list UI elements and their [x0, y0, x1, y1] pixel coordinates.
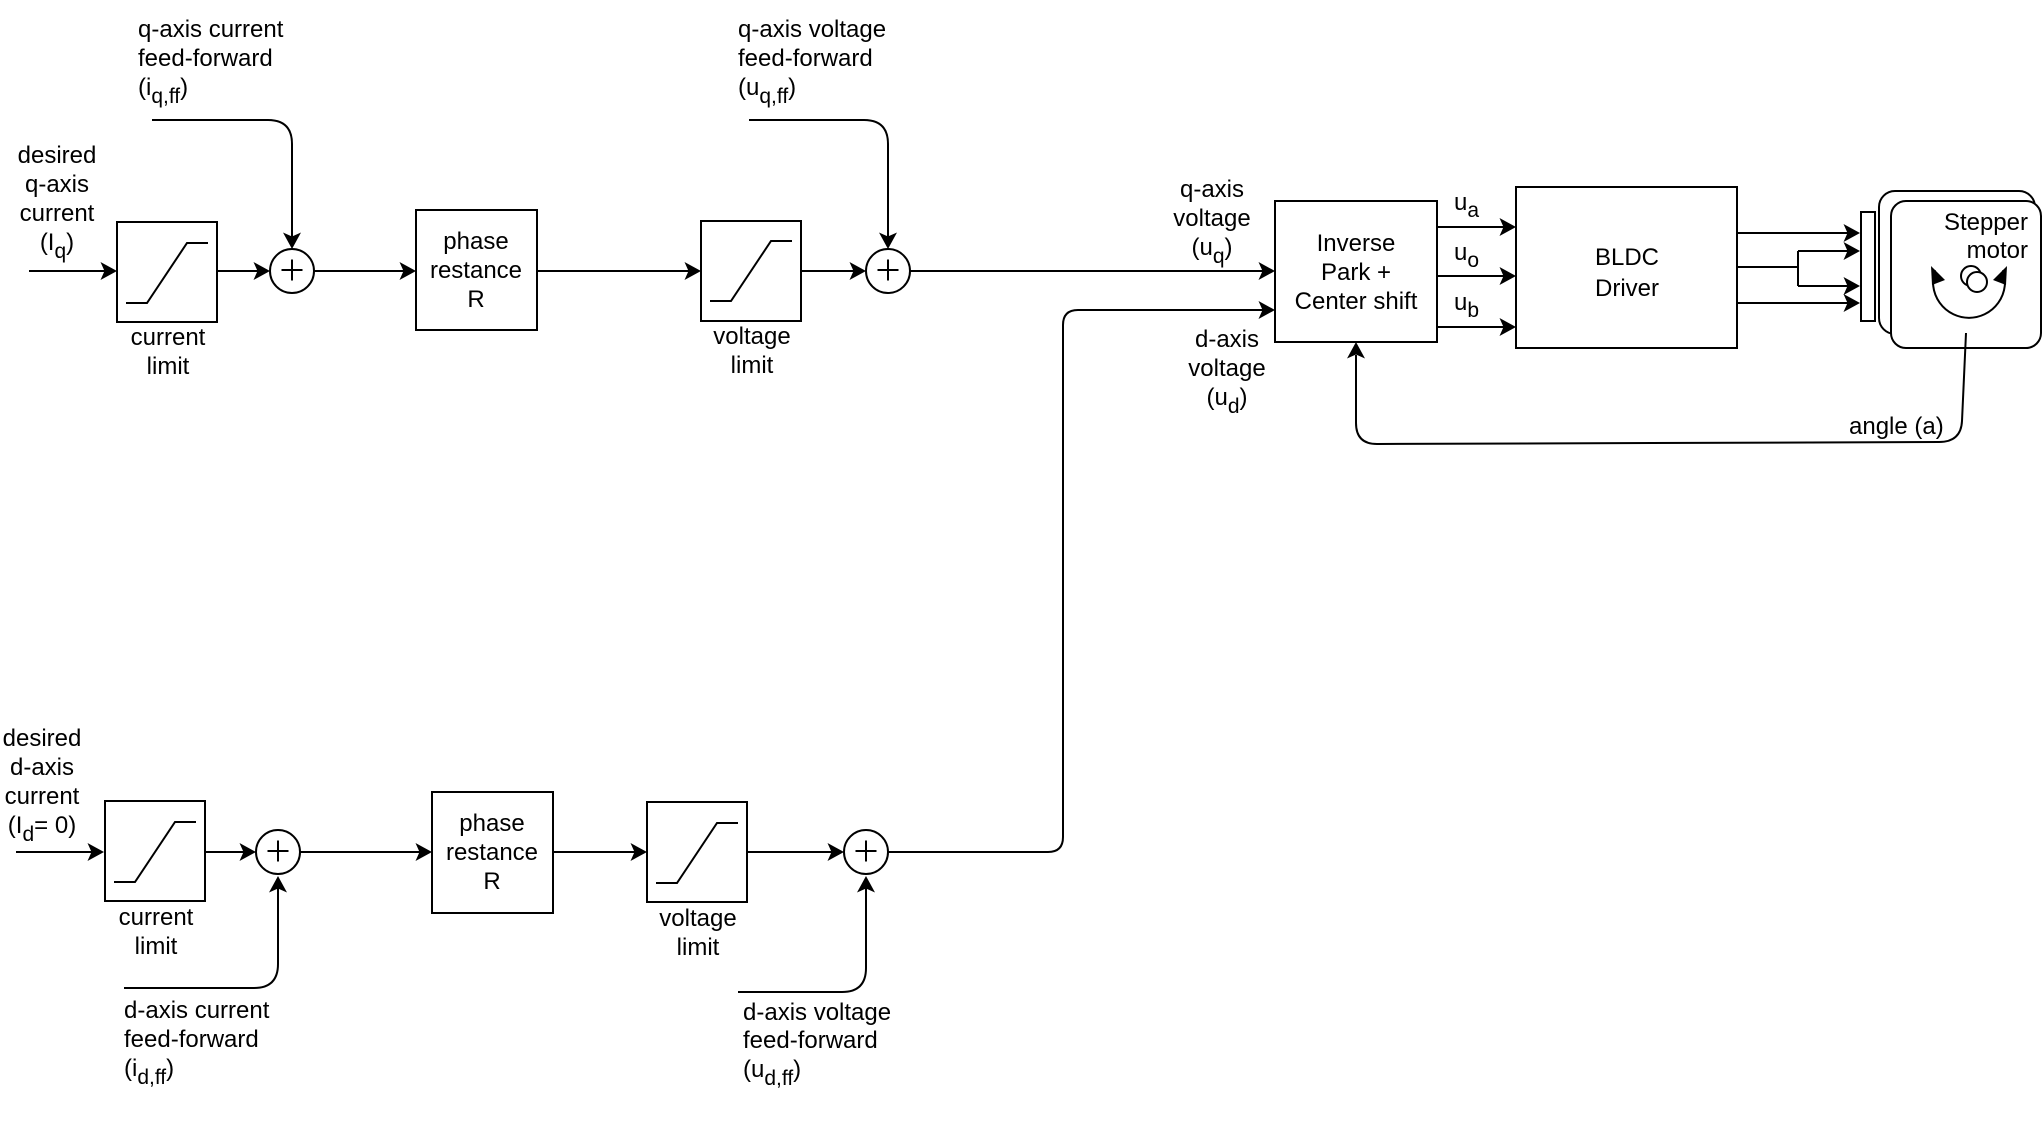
svg-text:current: current [20, 200, 95, 227]
node label: q-axis voltage feed-forward (uq,ff) [738, 16, 886, 108]
svg-text:current: current [5, 783, 80, 810]
svg-text:voltage: voltage [713, 323, 790, 350]
motor shaft front circle [1967, 272, 1987, 292]
motor mounting plate [1861, 212, 1875, 321]
wire: voltage limit to summer S4 (d) [747, 843, 844, 861]
wire: BLDC phase B to motor [1737, 294, 1860, 312]
node label: d-axis voltage (ud) [1188, 326, 1265, 418]
svg-text:voltage: voltage [1188, 355, 1265, 382]
svg-text:Inverse: Inverse [1317, 230, 1396, 257]
svg-text:Center shift: Center shift [1295, 288, 1418, 315]
wire: ua from inverse park to BLDC [1437, 189, 1516, 236]
svg-text:phase: phase [443, 228, 508, 255]
block: voltage limit (q) [701, 221, 801, 379]
wire: current limit to summer S3 (d) [205, 843, 256, 861]
wire: ud,ff feed-forward into S4 [738, 876, 875, 992]
svg-text:BLDC: BLDC [1595, 244, 1659, 271]
block: current limit (d) [105, 801, 205, 960]
wire: d input into current limit [16, 843, 104, 861]
svg-text:desired: desired [18, 142, 97, 169]
svg-text:feed-forward: feed-forward [138, 45, 273, 72]
block: BLDC Driver U2 [1516, 187, 1737, 348]
wire: angle (a) feedback from motor to inverse park [1347, 333, 1966, 444]
motor back body [1879, 191, 2035, 334]
svg-text:phase: phase [459, 810, 524, 837]
svg-text:feed-forward: feed-forward [743, 1027, 878, 1054]
svg-text:q-axis: q-axis [25, 171, 89, 198]
svg-text:limit: limit [147, 353, 190, 380]
wire: phase restance R to voltage limit (q) [537, 262, 701, 280]
svg-text:feed-forward: feed-forward [738, 45, 873, 72]
block: Inverse Park + Center shift U1 [1275, 201, 1437, 342]
node label: q-axis voltage (uq) [1173, 176, 1250, 268]
svg-text:d-axis voltage: d-axis voltage [743, 999, 891, 1026]
svg-text:q-axis voltage: q-axis voltage [738, 16, 886, 43]
wire: S1 to phase restance R (q) [314, 262, 416, 280]
wire: S4 up to inverse park d input (ud) [888, 301, 1275, 852]
svg-text:q-axis: q-axis [1180, 176, 1244, 203]
summer S2 (q voltage) [866, 249, 910, 293]
wire: current limit to summer S1 [217, 262, 270, 280]
block: phase restance R (d) [432, 792, 553, 913]
svg-text:current: current [131, 324, 206, 351]
summer S3 (d current) [256, 830, 300, 874]
block: phase restance R (q) [416, 210, 537, 330]
wire: uq,ff feed-forward into S2 [749, 120, 897, 249]
svg-text:R: R [483, 868, 500, 895]
svg-text:Driver: Driver [1595, 275, 1659, 302]
wire: uo from inverse park to BLDC [1437, 239, 1516, 285]
svg-text:q-axis current: q-axis current [138, 16, 284, 43]
node label: q-axis current feed-forward (iq,ff) [138, 16, 284, 108]
svg-text:Park +: Park + [1321, 259, 1391, 286]
wire: ub from inverse park to BLDC [1437, 289, 1516, 336]
block: voltage limit (d) [647, 802, 747, 961]
svg-text:restance: restance [446, 839, 538, 866]
svg-text:voltage: voltage [659, 905, 736, 932]
node label: d-axis voltage feed-forward (ud,ff) [743, 999, 891, 1090]
svg-text:d-axis: d-axis [1195, 326, 1259, 353]
summer S1 (q current) [270, 249, 314, 293]
wire: voltage limit to summer S2 (q) [801, 262, 866, 280]
wire: BLDC phase A to motor [1737, 224, 1860, 242]
wire: q input into current limit [29, 262, 117, 280]
wire: phase restance R to voltage limit (d) [553, 843, 647, 861]
svg-text:restance: restance [430, 257, 522, 284]
wire: S3 to phase restance R (d) [300, 843, 432, 861]
wire: iq,ff feed-forward into S1 [152, 120, 301, 249]
svg-text:motor: motor [1967, 237, 2028, 264]
svg-text:feed-forward: feed-forward [124, 1026, 259, 1053]
summer S4 (d voltage) [844, 830, 888, 874]
svg-text:current: current [119, 904, 194, 931]
wire: id,ff feed-forward into S3 [124, 876, 287, 988]
svg-text:voltage: voltage [1173, 205, 1250, 232]
svg-text:R: R [467, 286, 484, 313]
wire: BLDC phase mid split to motor [1737, 242, 1860, 295]
block: current limit (q) [117, 222, 217, 380]
svg-text:desired: desired [3, 725, 82, 752]
svg-text:limit: limit [731, 352, 774, 379]
node label: desired q-axis current (Iq) [18, 142, 97, 263]
svg-text:limit: limit [677, 934, 720, 961]
motor rotation arc arrow [1931, 266, 2007, 318]
svg-text:limit: limit [135, 933, 178, 960]
node label: desired d-axis current (Id = 0) [3, 725, 82, 846]
svg-text:angle (a): angle (a) [1849, 413, 1944, 440]
svg-text:d-axis current: d-axis current [124, 997, 270, 1024]
svg-text:Stepper: Stepper [1944, 209, 2028, 236]
motor M1: stepper motor front body [1891, 201, 2041, 348]
node label: d-axis current feed-forward (id,ff) [124, 997, 270, 1089]
svg-text:d-axis: d-axis [10, 754, 74, 781]
motor shaft back circle [1961, 266, 1981, 286]
wire: S2 to inverse park q input (uq) [910, 262, 1275, 280]
